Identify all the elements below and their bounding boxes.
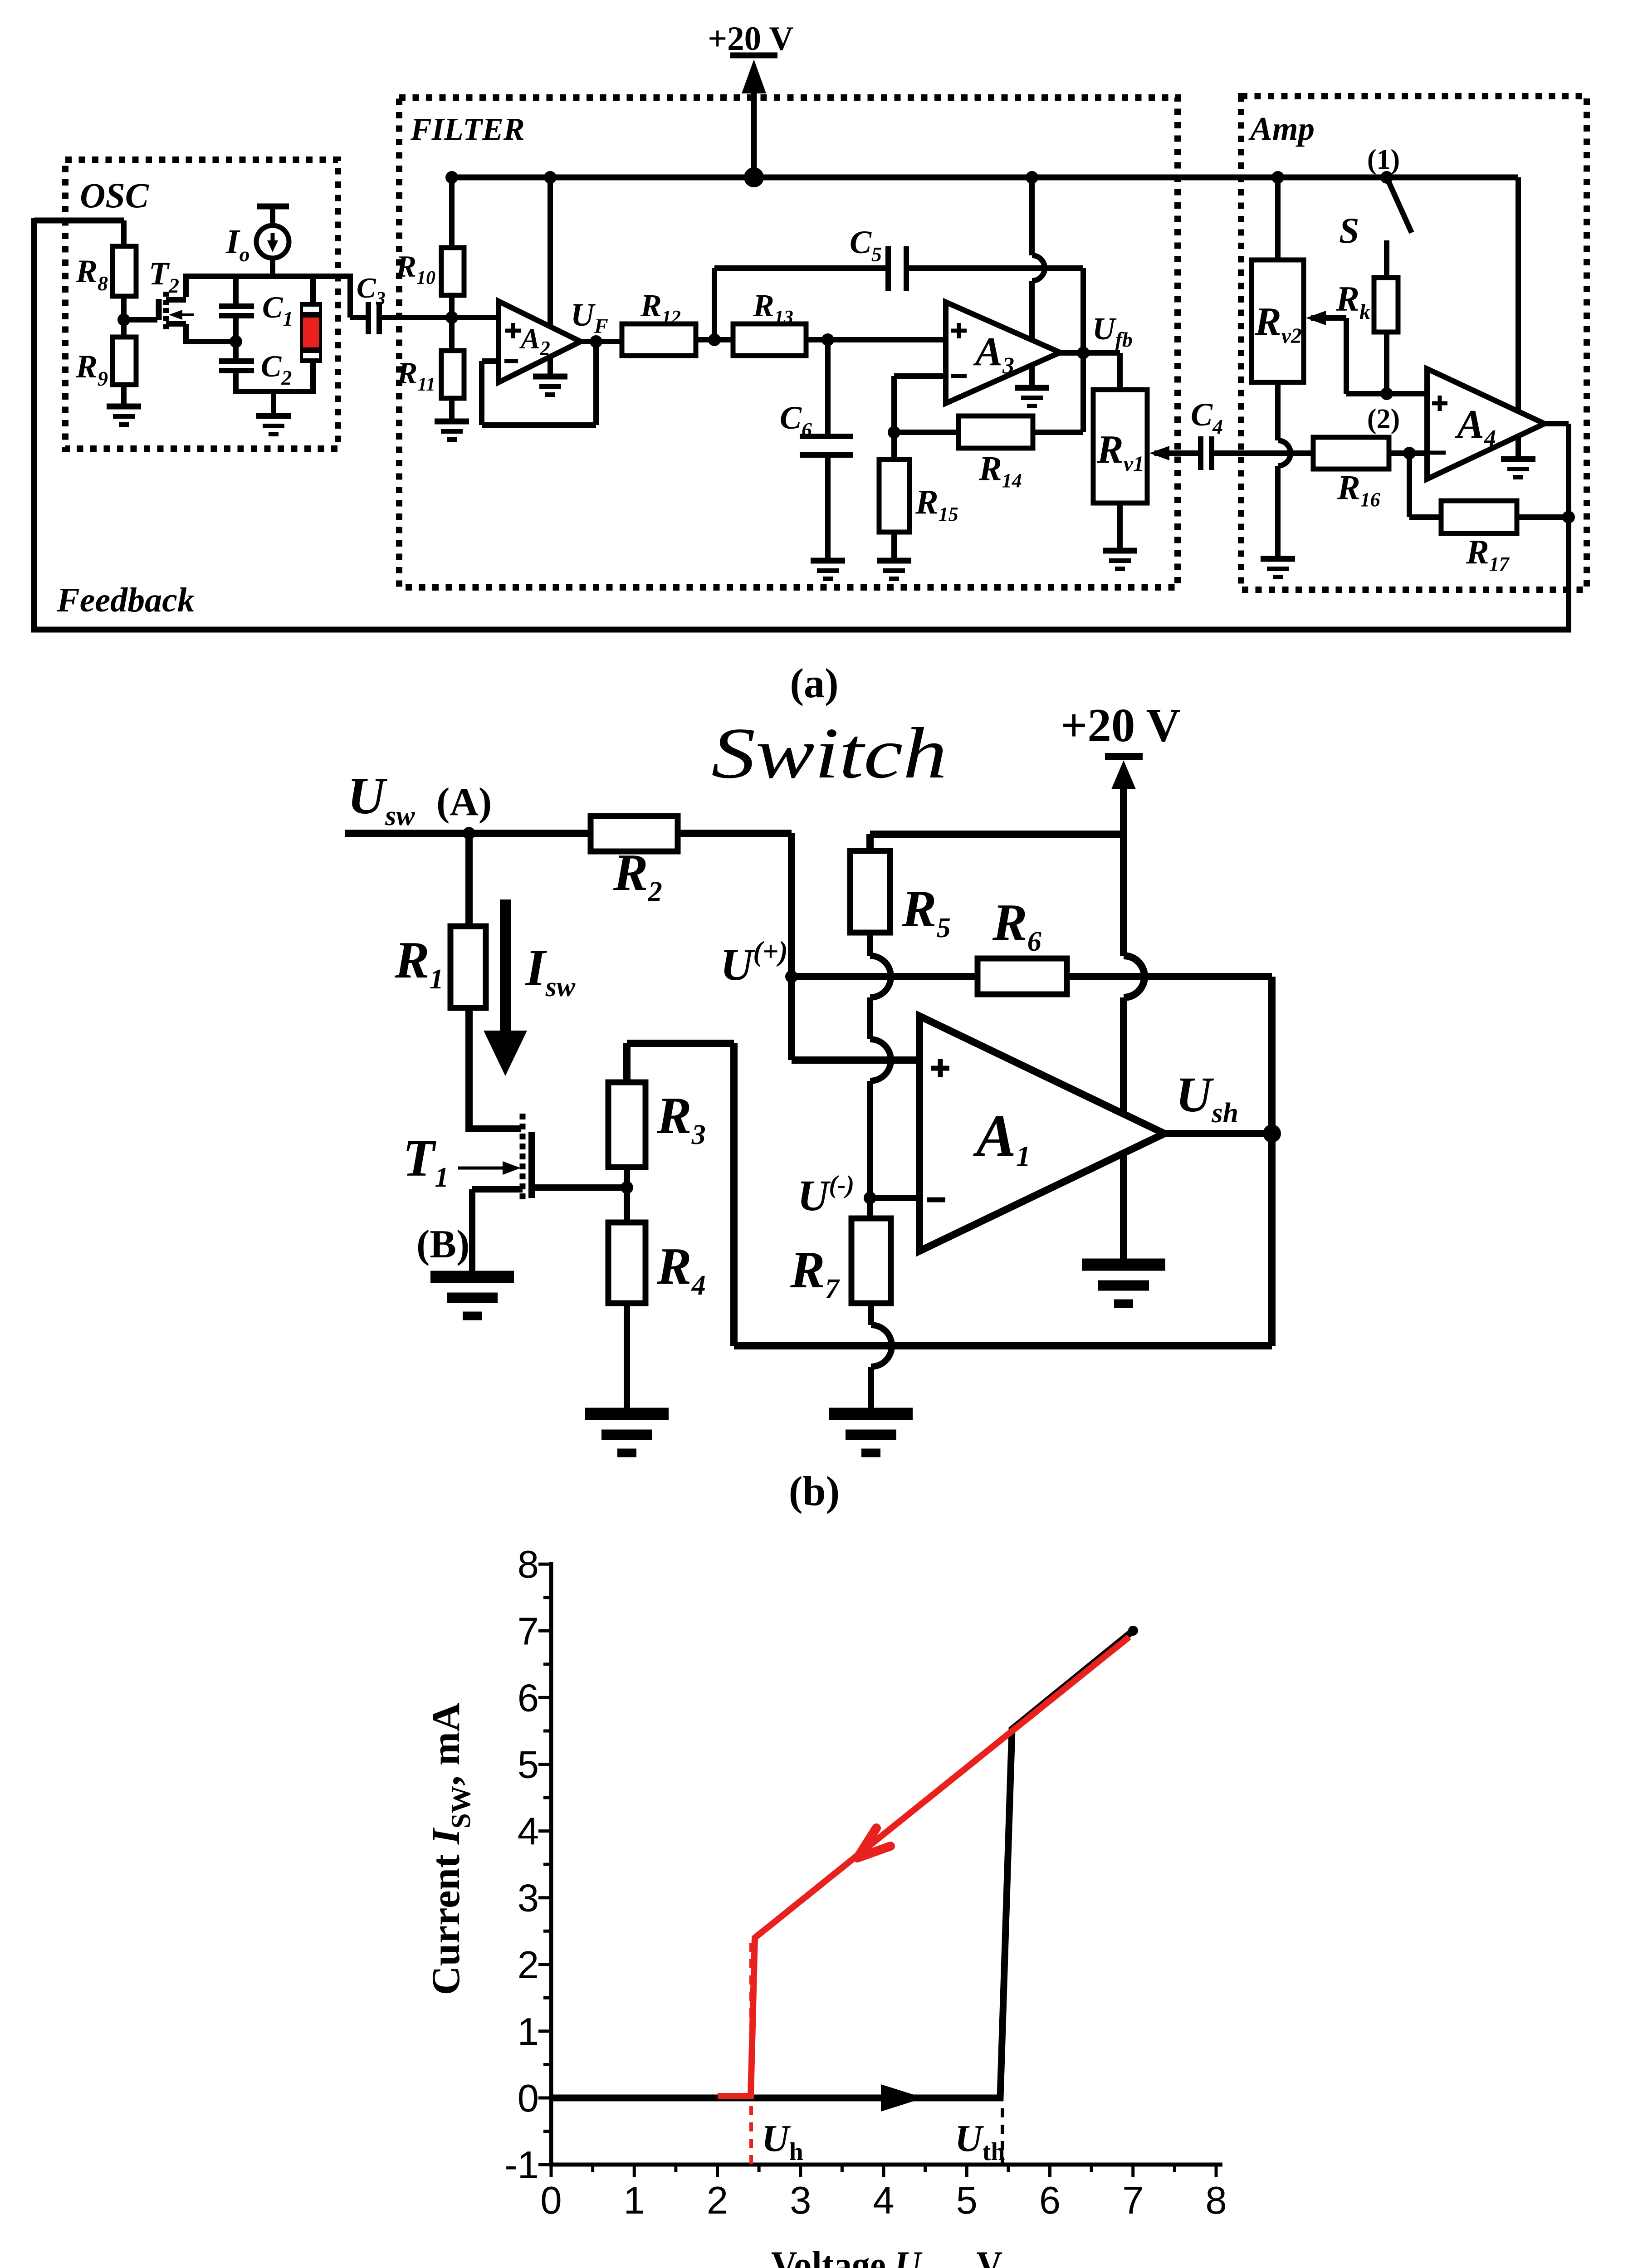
chart x-axis xyxy=(549,2163,1222,2167)
wire U(-) to A1 - input xyxy=(870,1195,919,1201)
arrow on black branch xyxy=(881,2084,924,2112)
svg-text:5: 5 xyxy=(518,1744,539,1787)
resistor R7 xyxy=(851,1218,891,1303)
resistor R10 xyxy=(449,177,455,248)
capacitor C2 xyxy=(233,342,239,359)
svg-text:6: 6 xyxy=(1039,2179,1061,2222)
wire R1 to T1 drain xyxy=(465,1125,473,1132)
svg-text:2: 2 xyxy=(518,1944,539,1987)
svg-text:7: 7 xyxy=(518,1610,539,1653)
svg-text:OSC: OSC xyxy=(80,176,149,215)
wire A2 feedback loop xyxy=(593,342,599,425)
resistor R3 xyxy=(608,1082,645,1167)
wire R3 top loop xyxy=(623,1043,631,1082)
svg-text:4: 4 xyxy=(873,2179,894,2222)
resistor R2 xyxy=(591,816,678,851)
svg-text:1: 1 xyxy=(624,2179,645,2222)
potentiometer Rv2 xyxy=(1252,260,1304,382)
svg-text:+20 V: +20 V xyxy=(1060,699,1180,752)
node Ush xyxy=(1263,1124,1281,1143)
current source Io xyxy=(257,204,289,210)
wire feedback bottom xyxy=(31,627,1571,633)
svg-text:Voltage USW, V: Voltage USW, V xyxy=(771,2244,1002,2268)
svg-text:(2): (2) xyxy=(1367,404,1400,435)
ground below Rv1 xyxy=(1103,548,1137,554)
OSC block dashed box xyxy=(65,160,338,449)
wire A4 output xyxy=(1545,421,1569,426)
resistor R15 xyxy=(879,459,909,532)
resistor R9 xyxy=(112,337,136,385)
transistor T1 xyxy=(520,1114,526,1201)
wire feedback top to R8 xyxy=(34,218,124,224)
wire to A4 + input xyxy=(1346,391,1427,396)
svg-text:FILTER: FILTER xyxy=(410,112,525,147)
wire T1 source to ground xyxy=(472,1186,523,1193)
dashed line Uth xyxy=(1001,2108,1004,2165)
svg-text:(A): (A) xyxy=(436,780,492,824)
node bus/R10 xyxy=(445,171,458,184)
node bus +20V xyxy=(744,167,764,187)
wire A2 output xyxy=(581,339,622,344)
svg-text:(1): (1) xyxy=(1367,144,1400,175)
current arrow Isw xyxy=(500,899,511,1036)
node R14/R15 xyxy=(888,426,900,439)
resistor R4 xyxy=(608,1222,645,1303)
svg-text:Amp: Amp xyxy=(1248,110,1315,147)
wire OSC to C3 xyxy=(347,274,353,318)
Amp block dashed box xyxy=(1241,96,1587,590)
resistor R11 xyxy=(441,351,464,398)
node Ufb xyxy=(1077,347,1090,359)
svg-text:5: 5 xyxy=(956,2179,978,2222)
chart y-axis xyxy=(549,1562,553,2165)
node bus/A3 supply xyxy=(1026,171,1038,184)
wire feedback left vertical xyxy=(31,218,37,632)
node UF xyxy=(590,335,602,348)
svg-text:3: 3 xyxy=(518,1877,539,1920)
svg-text:6: 6 xyxy=(518,1677,539,1720)
wire OSC bottom xyxy=(233,389,316,394)
svg-text:3: 3 xyxy=(790,2179,811,2222)
node R16/R17 xyxy=(1403,447,1416,459)
curve red branch xyxy=(718,1637,1129,2096)
ground OSC bottom xyxy=(271,391,276,416)
svg-text:S: S xyxy=(1339,211,1359,251)
wire R5 bottom (hops U+ and +in wires) xyxy=(867,933,873,956)
chart axis ticks xyxy=(550,2165,553,2177)
svg-text:(a): (a) xyxy=(790,660,838,706)
capacitor C1 xyxy=(233,276,239,304)
dashed line Uh xyxy=(749,1943,753,2165)
svg-text:Switch: Switch xyxy=(711,713,947,793)
resistor R8 xyxy=(112,246,136,296)
node bus/S (1) xyxy=(1380,171,1393,184)
wire T1 gate to R3/R4 xyxy=(532,1184,627,1191)
ground below R9 xyxy=(107,404,141,410)
svg-text:0: 0 xyxy=(518,2077,539,2120)
svg-text:2: 2 xyxy=(707,2179,728,2222)
wire R6 to Ush xyxy=(1067,973,1272,980)
svg-text:+20 V: +20 V xyxy=(708,20,793,58)
svg-text:7: 7 xyxy=(1122,2179,1144,2222)
svg-text:8: 8 xyxy=(1205,2179,1227,2222)
wire R8-R9 xyxy=(121,296,127,337)
capacitor C5 xyxy=(885,246,891,291)
op-amp A4 supply wire xyxy=(1516,177,1521,459)
resistor Rk xyxy=(1374,278,1398,332)
wire R5 top xyxy=(870,831,1124,838)
svg-text:8: 8 xyxy=(518,1543,539,1586)
ground below R4 xyxy=(585,1408,669,1420)
wire C3 to filter xyxy=(379,315,452,320)
svg-text:-1: -1 xyxy=(504,2144,539,2187)
capacitor C4 xyxy=(1198,436,1203,470)
node R8/R9 junction xyxy=(117,313,130,326)
node R13/C6 xyxy=(821,333,834,346)
wire +20V down to A1 (hops R6 wire) xyxy=(1120,787,1127,956)
wire R2 to U(+) xyxy=(788,833,795,977)
wire R8 top stem xyxy=(121,220,127,246)
node (2) xyxy=(1380,387,1393,400)
wire +20V top bus xyxy=(452,175,1518,181)
node (A) xyxy=(463,827,475,840)
op-amp A4 xyxy=(1427,369,1545,479)
node U(+) xyxy=(785,970,798,983)
node U(-) xyxy=(864,1192,876,1204)
op-amp A3 supply wire (hops C5 wire) xyxy=(1029,177,1035,255)
svg-text:Feedback: Feedback xyxy=(56,581,195,619)
switch S xyxy=(1387,177,1412,233)
wire U(+) to R6 xyxy=(792,973,978,980)
wire A3 - input xyxy=(894,373,946,379)
resistor R17 xyxy=(1441,501,1517,533)
wire T2 drain up to bus xyxy=(183,276,189,297)
op-amp A2 xyxy=(499,301,581,382)
potentiometer Rv2 wire from bus xyxy=(1275,177,1281,260)
ground A1 xyxy=(1082,1259,1165,1271)
node R10/R11/input xyxy=(445,311,458,324)
ground A4 xyxy=(1501,456,1535,462)
VO2 switch element (red) xyxy=(310,276,316,302)
node C1/C2 junction xyxy=(230,335,242,348)
wire R13 to A3 xyxy=(806,337,946,342)
resistor R12 xyxy=(622,324,696,356)
capacitor C6 xyxy=(825,340,831,434)
node bus/Rv2 xyxy=(1271,171,1284,184)
svg-text:Current ISW, mA: Current ISW, mA xyxy=(424,1703,476,1995)
resistor R6 xyxy=(978,958,1067,994)
svg-text:1: 1 xyxy=(518,2010,539,2053)
wire T2 gate lead xyxy=(124,317,157,323)
ground below R11 xyxy=(435,419,469,425)
op-amp A2 supply wire xyxy=(548,177,553,376)
ground below C6 xyxy=(811,558,845,564)
resistor R13 xyxy=(733,324,806,356)
resistor R1 xyxy=(465,833,473,926)
node R17/output xyxy=(1562,511,1575,523)
svg-text:(b): (b) xyxy=(789,1468,840,1514)
capacitor C3 xyxy=(366,302,371,334)
wire A3 output xyxy=(1060,350,1120,356)
wire U(+) down to A1 + input xyxy=(788,977,795,1060)
ground A3 xyxy=(1015,385,1049,391)
wire to A2 + input xyxy=(452,315,499,320)
wire C5 branch riser xyxy=(712,268,717,340)
node R3/R4 xyxy=(624,1167,630,1222)
arrow on red branch xyxy=(857,1846,890,1858)
svg-text:4: 4 xyxy=(518,1810,539,1853)
ground below R7 xyxy=(829,1408,913,1420)
wire OSC internal bus xyxy=(183,274,350,279)
FILTER block dashed box xyxy=(399,98,1178,587)
svg-text:(B): (B) xyxy=(416,1222,469,1266)
op-amp A3 xyxy=(946,302,1060,403)
potentiometer Rv1 xyxy=(1093,390,1147,503)
ground below R15 xyxy=(877,558,911,564)
wire T2 source down xyxy=(183,324,189,342)
node bus/A2 supply xyxy=(544,171,557,184)
resistor R16 xyxy=(1313,437,1389,469)
wire Ush feedback down/left xyxy=(1268,1134,1276,1346)
ground below Rv2 xyxy=(1261,556,1295,562)
wire Usw input xyxy=(345,830,792,837)
wire R7 bottom (hops feedback wire) xyxy=(868,1303,874,1325)
ground (B) xyxy=(430,1271,514,1283)
wire A1 output xyxy=(1164,1130,1272,1137)
curve black branch xyxy=(551,1631,1133,2098)
ground A2 xyxy=(533,374,567,380)
wire C5 to output node xyxy=(906,265,1083,271)
node R12/R13/C5 xyxy=(708,333,721,346)
op-amp A1 xyxy=(919,1016,1164,1251)
svg-text:0: 0 xyxy=(540,2179,562,2222)
wire R9 bottom xyxy=(121,385,127,406)
resistor R5 xyxy=(850,851,890,933)
wire C4 to R16 xyxy=(1212,450,1313,456)
transistor T2 xyxy=(156,299,162,320)
wire Rv2 bottom (hops C4 wire) xyxy=(1275,382,1281,440)
resistor R14 xyxy=(894,430,958,435)
